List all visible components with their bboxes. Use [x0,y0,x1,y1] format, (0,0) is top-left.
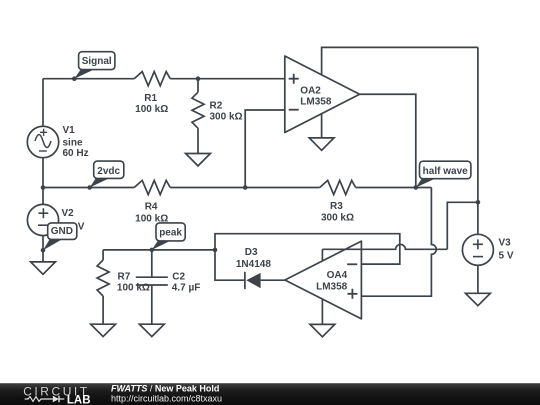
node V1/V2 junction [41,185,46,190]
svg-text:R7: R7 [118,272,131,283]
svg-text:R1: R1 [144,93,157,104]
wire OA2 inverting feedback [245,110,285,188]
svg-text:100 kΩ: 100 kΩ [135,213,168,224]
svg-text:300 kΩ: 300 kΩ [210,112,243,123]
wire V2 bottom to ground [42,236,44,262]
resistor R1 [134,72,170,86]
node half wave junction [414,185,419,190]
ground under V3 [466,293,491,305]
svg-text:V: V [78,221,85,232]
svg-text:LM358: LM358 [300,97,332,108]
ground under C2 [139,324,164,336]
ground under OA2 [309,138,334,150]
op-amp OA4 [285,241,362,319]
svg-text:LAB: LAB [67,395,91,405]
node GND junction [41,248,46,253]
node R1/R2 junction [196,76,201,81]
source V1 sine [27,126,58,157]
op-amp OA2 non-inverting input marker + [289,74,299,84]
source V3 [462,234,493,265]
ground under OA4 [310,324,335,336]
resistor R7 [102,250,104,260]
wire OA2 V+ supply to top rail [322,47,478,74]
node 2vdc junction [87,185,92,190]
wire peak to D3 [215,250,245,280]
resistor R2 [197,79,199,93]
source V2 [27,204,58,235]
wire OA2 output [360,94,416,187]
node V3 supply junction [476,200,481,205]
svg-text:GND: GND [51,226,73,237]
wire half wave node to OA4 + input [361,188,436,297]
svg-text:http://circuitlab.com/c8txaxu: http://circuitlab.com/c8txaxu [111,393,222,403]
svg-text:C2: C2 [172,272,185,283]
resistor R3 [320,180,356,194]
flag 2vdc [90,161,124,187]
svg-text:V1: V1 [63,125,76,136]
svg-text:peak: peak [159,227,182,238]
op-amp OA2 [285,56,360,133]
wire V2 top [42,188,44,205]
node Signal junction [72,76,77,81]
wire OA4 V- to ground [321,299,323,324]
svg-text:2vdc: 2vdc [97,166,120,177]
resistor R4 [134,180,170,194]
svg-text:R4: R4 [145,201,158,212]
svg-text:OA4: OA4 [327,270,348,281]
svg-text:R2: R2 [210,100,223,111]
wire signal rail left vertical (V1 top to signal rail) [42,79,44,127]
ground under R7 [91,324,116,336]
svg-text:OA2: OA2 [300,86,321,97]
flag peak [152,223,185,250]
wire peak rail [103,249,215,251]
diode D3 [244,272,246,289]
wire 2vdc rail [43,187,431,189]
svg-text:D3: D3 [245,247,258,258]
svg-text:Signal: Signal [82,56,112,67]
svg-text:60 Hz: 60 Hz [63,148,89,159]
node peak junction [150,248,155,253]
wire OA4 V+ supply rail with hops [322,202,478,261]
wire peak to OA4 inverting feedback [215,234,400,264]
flag Signal [74,52,115,79]
op-amp OA4 inverting input marker - [347,263,357,265]
svg-text:300 kΩ: 300 kΩ [321,212,354,223]
wire D3 to OA4 output [261,279,285,281]
svg-text:LM358: LM358 [316,281,348,292]
node peak/D3 junction [213,248,218,253]
ground under R2 [186,154,211,166]
wire V3 bottom to ground [477,266,479,294]
svg-text:5 V: 5 V [499,250,514,261]
svg-text:sine: sine [63,138,83,149]
wire signal rail horizontal [43,78,285,80]
ground under V2 [31,262,56,274]
op-amp OA2 inverting input marker - [289,109,299,111]
flag half wave [416,161,471,187]
svg-text:FWATTS / New Peak Hold: FWATTS / New Peak Hold [111,384,219,394]
svg-text:V2: V2 [62,208,75,219]
svg-text:4.7 µF: 4.7 µF [172,283,201,294]
svg-text:half wave: half wave [423,166,468,177]
svg-text:100 kΩ: 100 kΩ [117,283,150,294]
wire OA2 V- to ground [321,114,323,138]
svg-text:100 kΩ: 100 kΩ [135,104,168,115]
wire V1 bottom to 2vdc rail [42,158,44,188]
wire V3 vertical [477,47,479,234]
capacitor C2 [136,250,168,324]
op-amp OA4 non-inverting input marker + [347,289,357,299]
svg-text:V3: V3 [499,238,512,249]
svg-text:R3: R3 [330,201,343,212]
node OA2 feedback junction [243,185,248,190]
svg-text:1N4148: 1N4148 [236,259,271,270]
flag GND [43,223,77,250]
